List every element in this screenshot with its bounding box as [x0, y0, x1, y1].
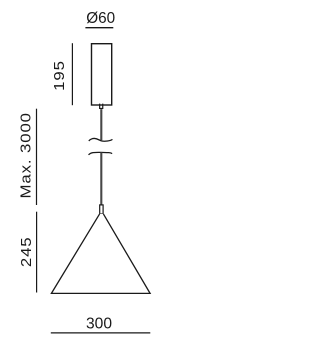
svg-text:Ø60: Ø60: [86, 10, 115, 27]
dimension line for Max. 3000: [36, 109, 38, 205]
dimension line for Ø60: [85, 27, 113, 29]
break line upper squiggle: [89, 138, 113, 141]
svg-text:245: 245: [19, 236, 35, 267]
cable lower segment: [100, 153, 102, 206]
svg-text:195: 195: [52, 60, 68, 91]
canopy cylinder: [92, 44, 112, 105]
dimension line for 300: [51, 332, 151, 334]
cord grip socket below canopy: [100, 104, 103, 109]
svg-text:Max. 3000: Max. 3000: [18, 112, 34, 198]
lamp socket at cone apex: [100, 205, 103, 214]
dimension line for 245: [36, 212, 38, 293]
cable upper segment: [100, 109, 102, 140]
dimension line for 195: [71, 43, 73, 105]
cone shade: [51, 214, 150, 294]
svg-text:300: 300: [86, 316, 112, 333]
break line lower squiggle: [89, 152, 113, 154]
